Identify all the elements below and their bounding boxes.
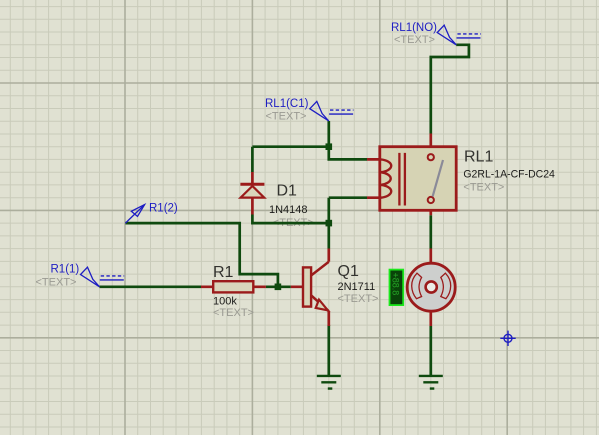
svg-text:R1(1): R1(1) xyxy=(51,264,80,276)
svg-text:G2RL-1A-CF-DC24: G2RL-1A-CF-DC24 xyxy=(463,169,555,181)
svg-text:<TEXT>: <TEXT> xyxy=(338,293,379,305)
svg-text:R1(2): R1(2) xyxy=(149,203,178,215)
svg-text:D1: D1 xyxy=(277,183,298,200)
svg-text:RL1(NO): RL1(NO) xyxy=(391,22,437,34)
svg-text:RL1: RL1 xyxy=(464,149,493,166)
svg-text:<TEXT>: <TEXT> xyxy=(463,182,504,194)
svg-text:1N4148: 1N4148 xyxy=(269,204,308,216)
svg-text:R1: R1 xyxy=(213,264,234,281)
svg-text:RL1(C1): RL1(C1) xyxy=(265,98,309,110)
svg-text:<TEXT>: <TEXT> xyxy=(213,307,254,319)
svg-text:+88.8: +88.8 xyxy=(391,273,401,296)
svg-text:Q1: Q1 xyxy=(338,263,359,280)
svg-text:100k: 100k xyxy=(213,296,237,308)
svg-text:<TEXT>: <TEXT> xyxy=(394,34,435,46)
svg-text:2N1711: 2N1711 xyxy=(338,281,376,293)
svg-text:<TEXT>: <TEXT> xyxy=(36,277,77,289)
svg-text:<TEXT>: <TEXT> xyxy=(266,111,307,123)
